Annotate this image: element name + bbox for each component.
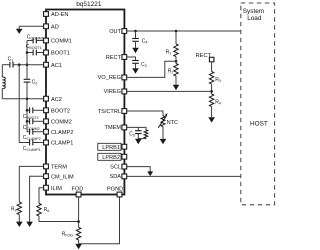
ground arrow (RFOD/PGND) [75,244,82,249]
pin AC1 [44,62,62,69]
svg-text:BOOT1: BOOT1 [51,51,70,57]
wire SCL branch [127,167,150,172]
pin OUT [109,29,127,35]
ground arrow (C4) [132,48,139,53]
wire AC1 line [13,64,44,66]
pin CLAMP2 [44,129,74,136]
pin CLAMP1 [44,140,74,147]
capacitor C1 (series) [2,56,13,67]
node AC1/rail2 junction [18,63,21,66]
svg-text:VO_REG: VO_REG [98,75,121,81]
wire AC2 net vertical rail [26,82,28,132]
svg-text:OUT: OUT [109,29,121,35]
wire PGND return [79,196,120,244]
svg-text:CCOMM2: CCOMM2 [23,125,40,131]
svg-text:System: System [243,8,264,15]
svg-text:SCL: SCL [110,164,121,170]
pin PGND [107,187,123,197]
svg-text:CCOMM1: CCOMM1 [27,35,44,41]
svg-text:R4: R4 [215,100,221,106]
pin AC2 [44,96,62,103]
node AC2 junction [26,97,29,100]
node R1/R2 VO_REG tap [175,60,178,63]
svg-text:ILIM: ILIM [51,186,62,192]
pin LPRB1 [98,143,127,151]
resistor R4 (RECT divider bottom) [209,94,213,107]
ground arrow (R4) [208,117,215,122]
node AC1 junction [26,63,29,66]
capacitor C5 (TMEM) [129,127,141,138]
ground arrow (AD) [18,26,20,29]
svg-text:CCLAMP2: CCLAMP2 [23,135,41,141]
svg-text:NTC: NTC [167,120,178,126]
node OUT/R1 [175,30,178,33]
wire AC2 line [2,98,44,100]
ground arrow (TMEM) [135,139,142,144]
pin LPRB2 [98,153,127,161]
node VIREG/R3/R4 [210,90,213,93]
pin AD [44,24,59,31]
svg-text:C3: C3 [141,62,147,68]
wire ILIM down [39,188,44,204]
pin TMEM [105,125,127,131]
pin VO_REG [98,75,127,81]
node OUT/C4 [134,30,137,33]
svg-text:FOD: FOD [72,187,84,193]
resistor R9 (TERM) [17,202,21,215]
svg-text:RECT: RECT [106,55,122,61]
svg-text:TERM: TERM [51,165,67,171]
ground arrow (NTC) [160,139,167,144]
IC U1 bq51221 body [46,1,124,195]
pin AD-EN [44,12,69,19]
capacitor C4 (OUT) [132,31,147,48]
capacitor CCLAMP2 [23,129,44,141]
ground arrow (C3) [132,68,139,73]
ground arrow (TERM) [16,222,23,227]
wire AC1 net vertical rail (COMM1/BOOT1 caps down to AC1, C2 to AC2, BOOT2/COMM2/CLAMP2) [26,41,28,80]
svg-text:CBOOT2: CBOOT2 [23,114,39,120]
svg-text:C2: C2 [32,80,38,86]
resistor R6 (ILIM) [37,204,41,217]
wire TERM down [19,166,44,202]
svg-text:R3: R3 [215,77,221,83]
svg-text:SDA: SDA [109,174,121,180]
wire SDA to HOST [127,175,241,177]
pin TS/CTRL [98,109,127,115]
svg-text:R6: R6 [44,207,50,213]
pin COMM2 [44,119,72,126]
pin SDA [109,174,126,180]
wire VO_REG to divider [127,61,176,77]
capacitor CBOOT2 [23,107,44,120]
svg-text:R9: R9 [11,207,17,213]
svg-text:COMM2: COMM2 [51,120,72,126]
capacitor C2 [24,79,38,85]
svg-text:TMEM: TMEM [105,125,122,131]
wire rail AC1 down to CLAMP1 [18,65,20,143]
capacitor CCOMM1 [27,35,44,44]
wire ILIM resistor to FOD node [39,216,79,221]
svg-text:PGND: PGND [107,187,123,193]
arrow SCL onto SDA bus [147,171,153,176]
wire TS/CTRL to NTC [127,111,163,116]
wire OUT line to System Load [127,30,241,32]
svg-text:HOST: HOST [250,120,268,127]
ground arrow (R2) [173,85,180,90]
resistor (TMEM parallel) [144,130,148,138]
svg-text:C5: C5 [129,131,135,137]
svg-text:R1: R1 [166,50,172,56]
svg-text:CCLAMP1: CCLAMP1 [23,146,41,152]
resistor R1 (OUT divider top) [175,31,177,44]
svg-text:BOOT2: BOOT2 [51,109,70,115]
inductor L1 receive coil [2,65,5,99]
wire CM_ILIM to ground [30,176,44,221]
svg-text:LPRB1: LPRB1 [102,145,120,151]
svg-text:bq51221: bq51221 [76,1,102,8]
svg-text:AC1: AC1 [51,63,62,69]
svg-text:AD: AD [51,25,59,31]
resistor R3 (RECT divider top) [209,72,213,85]
svg-text:CM_ILIM: CM_ILIM [51,174,74,180]
resistor RFOD [76,227,80,240]
svg-text:RFOD: RFOD [62,231,74,237]
svg-text:C1: C1 [8,56,14,62]
svg-text:CLAMP1: CLAMP1 [51,141,73,147]
pin SCL [110,164,127,170]
svg-text:CBOOT1: CBOOT1 [26,44,42,50]
pin RECT [106,55,127,61]
wire AD to ground [19,25,44,27]
node FOD/ILIM junction [77,220,80,223]
System Load / HOST dashed box [241,3,275,205]
capacitor CBOOT1 [26,44,44,55]
capacitor CCLAMP1 [19,140,44,152]
RECT test point [196,53,214,71]
ground arrow (CM_ILIM) [26,222,33,227]
wire FOD down [78,196,80,227]
pin BOOT1 [44,50,70,57]
wire TMEM RC network [127,127,146,129]
wire VIREG line [127,90,212,92]
pin BOOT2 [44,108,70,115]
capacitor C3 (RECT) [127,57,147,68]
capacitor CCOMM2 [23,118,44,131]
svg-text:COMM1: COMM1 [51,39,72,45]
svg-text:VIREG: VIREG [104,89,121,95]
svg-text:CLAMP2: CLAMP2 [51,130,73,136]
pin TERM [44,164,68,171]
svg-text:Load: Load [247,15,262,22]
svg-text:LPRB2: LPRB2 [102,155,120,161]
svg-text:AD-EN: AD-EN [51,12,68,18]
resistor R2 (OUT divider bottom) [174,64,178,77]
pin COMM1 [44,38,72,45]
pin VIREG [104,89,127,95]
pin ILIM [44,185,63,192]
pin CM_ILIM [44,174,74,181]
svg-text:TS/CTRL: TS/CTRL [98,109,121,115]
svg-text:AC2: AC2 [51,97,62,103]
node BOOT1 junction [26,51,29,54]
svg-text:C4: C4 [142,38,148,44]
thermistor NTC [158,113,178,139]
svg-text:R2: R2 [168,68,174,74]
pin FOD [72,187,84,197]
